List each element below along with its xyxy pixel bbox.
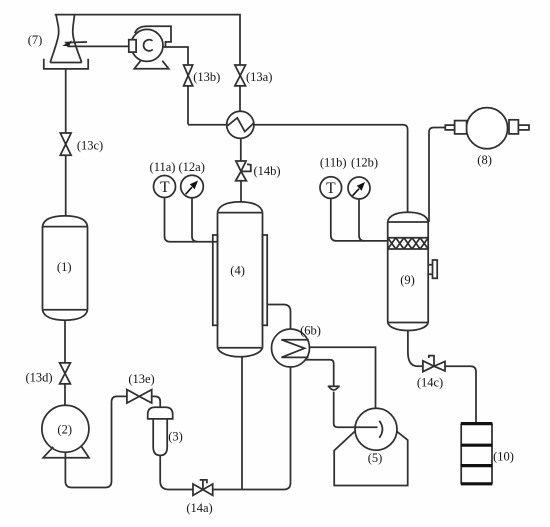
svg-text:(6b): (6b) xyxy=(300,323,321,337)
svg-text:(11b): (11b) xyxy=(320,155,347,169)
svg-text:(13a): (13a) xyxy=(246,70,272,84)
svg-text:(7): (7) xyxy=(28,33,43,47)
svg-text:(12b): (12b) xyxy=(351,155,378,169)
svg-text:(9): (9) xyxy=(400,273,415,287)
svg-text:(4): (4) xyxy=(230,263,245,277)
svg-text:(2): (2) xyxy=(57,422,72,436)
svg-text:(13b): (13b) xyxy=(193,70,220,84)
svg-text:(10): (10) xyxy=(493,449,514,463)
svg-text:(13d): (13d) xyxy=(25,370,52,384)
svg-text:(1): (1) xyxy=(57,260,72,274)
svg-text:(14a): (14a) xyxy=(186,501,212,515)
svg-text:(11a): (11a) xyxy=(150,160,176,174)
svg-text:(8): (8) xyxy=(477,153,492,167)
svg-text:(13c): (13c) xyxy=(77,139,103,153)
svg-text:T: T xyxy=(326,180,336,197)
svg-text:(12a): (12a) xyxy=(179,160,205,174)
svg-text:(14b): (14b) xyxy=(253,164,280,178)
svg-text:T: T xyxy=(160,179,170,196)
svg-text:(13e): (13e) xyxy=(128,372,154,386)
svg-text:(5): (5) xyxy=(368,451,383,465)
svg-text:(3): (3) xyxy=(168,430,183,444)
svg-text:(14c): (14c) xyxy=(417,375,443,389)
